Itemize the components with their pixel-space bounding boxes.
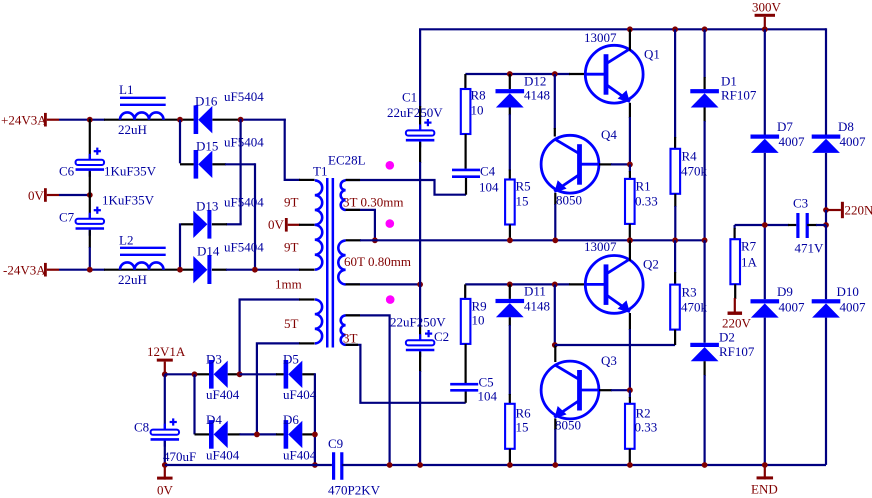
wire R2 top pin <box>629 390 631 398</box>
svg-text:T1: T1 <box>313 164 327 179</box>
wire C8 top lead <box>164 374 166 429</box>
resistor R8 10 <box>461 89 471 134</box>
wire Q3 base black <box>599 389 612 391</box>
svg-text:C8: C8 <box>134 420 149 435</box>
wire node to primary top <box>285 119 300 180</box>
wire C4 bottom pin <box>465 178 467 195</box>
junction 3T-mid/bus <box>372 237 378 243</box>
junction Q3c/R3 row <box>552 342 558 348</box>
svg-text:5T: 5T <box>284 316 299 331</box>
resistor R1 0.33 <box>625 179 635 224</box>
junction Q3e/rail <box>552 462 558 468</box>
junction rail/D1 <box>702 26 708 32</box>
wire -24V rail black <box>104 269 194 271</box>
wire D13 right <box>226 223 242 225</box>
svg-text:C4: C4 <box>480 164 496 179</box>
wire D5 anode black <box>276 373 284 375</box>
svg-text:3T: 3T <box>343 331 358 346</box>
svg-text:L1: L1 <box>119 82 133 97</box>
wire C7 bottom lead <box>89 230 91 248</box>
svg-text:300V: 300V <box>752 0 782 15</box>
svg-text:D10: D10 <box>837 284 859 299</box>
wire C3 right black <box>807 224 817 226</box>
junction +24V/C6 <box>87 117 93 123</box>
svg-text:D4: D4 <box>206 412 222 427</box>
resistor R5 15 <box>505 180 515 225</box>
svg-text:13007: 13007 <box>584 239 617 254</box>
junction rail/300V <box>762 26 768 32</box>
svg-text:15: 15 <box>516 194 529 209</box>
junction R6/rail <box>507 462 513 468</box>
wire D12 to R5 <box>509 108 511 116</box>
svg-text:0.33: 0.33 <box>635 420 658 435</box>
svg-text:uF5404: uF5404 <box>224 195 264 210</box>
svg-text:4148: 4148 <box>524 299 550 314</box>
wire 60T top stub <box>346 239 361 241</box>
port 12V1A <box>157 359 173 362</box>
wire 300V column to D7 <box>764 29 766 134</box>
svg-text:104: 104 <box>479 180 499 195</box>
wire D4 left <box>195 433 210 435</box>
svg-text:uF404: uF404 <box>206 448 240 463</box>
port +24V3A <box>44 113 47 127</box>
junction -24V/C7 <box>87 267 93 273</box>
wire mid bus <box>360 239 705 241</box>
wire C8 bottom lead <box>164 441 166 465</box>
wire R7 top pin <box>733 225 735 229</box>
wire 3T-mid to bus <box>346 210 375 240</box>
plus C1 <box>424 121 431 123</box>
junction D2/rail <box>702 462 708 468</box>
polarity dot 1 <box>386 161 395 170</box>
transistor Q4 8050 <box>541 135 599 193</box>
port 0V left <box>44 188 47 202</box>
resistor R6 15 <box>505 404 515 449</box>
wire D7 to D9 <box>764 153 766 299</box>
svg-text:10: 10 <box>472 313 485 328</box>
junction C3 right <box>823 222 829 228</box>
capacitor C8 470uF <box>164 424 166 430</box>
wire R9 top pin <box>464 284 466 299</box>
svg-text:uF5404: uF5404 <box>224 135 264 150</box>
wire C2 top black <box>419 325 421 340</box>
wire D3 anode black <box>195 373 209 375</box>
port 0V bottom <box>157 477 173 480</box>
diode D4 uF404 <box>209 420 214 449</box>
wire 3T-top to C4 <box>346 180 466 195</box>
diode D5 uF404 <box>284 360 289 389</box>
svg-text:uF5404: uF5404 <box>224 89 264 104</box>
wire D13 branch down <box>179 223 181 269</box>
capacitor C7 1KuF35V <box>89 213 91 219</box>
diode D15 uF5404 <box>194 150 199 179</box>
svg-text:uF404: uF404 <box>283 387 317 402</box>
svg-text:9T: 9T <box>284 195 299 210</box>
svg-text:R2: R2 <box>636 406 651 421</box>
wire R2 bottom pin <box>629 449 631 465</box>
junction D3/5T <box>237 371 243 377</box>
junction base/D12 <box>507 71 513 77</box>
wire D15 cathode black <box>212 163 226 165</box>
wire C1 bottom lead <box>419 142 421 163</box>
svg-text:C6: C6 <box>59 164 75 179</box>
diode D2 RF107 <box>690 343 719 347</box>
wire center tap black <box>299 224 315 226</box>
resistor R2 0.33 <box>625 404 635 449</box>
wire 0V rail left <box>165 464 332 466</box>
wire D1 to bus <box>703 108 705 123</box>
capacitor C2 22uF250V <box>419 334 421 340</box>
diode D14 uF5404 <box>193 256 207 283</box>
svg-text:8050: 8050 <box>555 418 581 433</box>
wire ground rail <box>342 464 826 466</box>
svg-text:D5: D5 <box>283 352 299 367</box>
diode D13 uF5404 <box>193 211 207 238</box>
junction C2/rail <box>417 462 423 468</box>
wire 3T-top stub <box>346 179 360 181</box>
svg-text:4007: 4007 <box>840 300 867 315</box>
wire D3 to node <box>228 373 241 375</box>
svg-text:D12: D12 <box>524 74 546 89</box>
svg-text:22uH: 22uH <box>118 122 147 137</box>
wire bus to D2 <box>703 240 705 342</box>
port END <box>757 476 774 479</box>
column D5/D6 to 0V rail <box>314 373 316 465</box>
svg-text:Q2: Q2 <box>643 257 659 272</box>
svg-text:10: 10 <box>471 103 484 118</box>
resistor R9 10 <box>461 299 471 344</box>
svg-text:4007: 4007 <box>779 134 806 149</box>
wire 220N junction to C3 row <box>825 210 827 226</box>
column A node to D13 <box>240 119 242 225</box>
wire Q4 emitter down <box>554 193 556 205</box>
wire 300V top rail <box>419 28 826 30</box>
svg-text:1KuF35V: 1KuF35V <box>104 164 157 179</box>
port 300V <box>755 14 775 17</box>
svg-text:D15: D15 <box>196 139 218 154</box>
svg-text:R6: R6 <box>516 406 532 421</box>
wire D6 anode black <box>276 433 284 435</box>
svg-text:471V: 471V <box>795 241 825 256</box>
wire node to D6 <box>240 433 278 435</box>
wire C3 to column <box>816 224 826 226</box>
wire R5 bottom pin <box>509 225 511 241</box>
svg-text:D11: D11 <box>524 284 546 299</box>
svg-text:R5: R5 <box>516 179 531 194</box>
wire Q4 collector up <box>554 74 556 129</box>
junction D6/rail column <box>312 432 318 438</box>
wire R3 top pin <box>674 240 676 273</box>
diode D16 uF5404 <box>194 105 199 134</box>
svg-text:D3: D3 <box>206 352 222 367</box>
junction 3Tb/rail <box>387 462 393 468</box>
wire C3 to D10 <box>825 225 827 299</box>
wire D4 to 5T node <box>228 433 241 435</box>
svg-text:C5: C5 <box>479 375 494 390</box>
wire R8 top pin <box>464 74 466 89</box>
wire C6 bottom lead <box>89 171 91 195</box>
svg-text:60T 0.80mm: 60T 0.80mm <box>344 254 411 269</box>
svg-text:22uH: 22uH <box>118 272 147 287</box>
svg-text:RF107: RF107 <box>721 88 757 103</box>
junction R1/bus <box>627 237 633 243</box>
resistor R3 470k <box>670 285 680 330</box>
wire D1 top pin <box>703 29 705 78</box>
junction Q4 collector/base row <box>552 71 558 77</box>
svg-text:C2: C2 <box>434 329 449 344</box>
svg-text:D1: D1 <box>721 74 737 89</box>
wire Q3 emitter down <box>554 419 556 430</box>
svg-text:END: END <box>751 482 778 497</box>
junction Q4e/bus <box>552 237 558 243</box>
junction 60T/C1C2 <box>417 282 423 288</box>
svg-text:1A: 1A <box>741 255 758 270</box>
wire D8 to 220N junction <box>825 153 827 210</box>
wire R3 bottom pin <box>674 330 676 345</box>
wire D11 to R6 <box>509 317 511 326</box>
wire D12 top pin <box>509 74 511 89</box>
wire into primary bottom <box>299 269 315 271</box>
svg-text:D2: D2 <box>719 330 735 345</box>
wire 0V to C6/C7 <box>59 194 90 196</box>
junction C3 row/D9 column <box>762 222 768 228</box>
junction D5D6 column/rail <box>312 462 318 468</box>
junction Q1 collector/rail <box>627 26 633 32</box>
inductor L2 <box>120 262 164 269</box>
svg-text:Q4: Q4 <box>601 127 617 142</box>
wire D15 branch down <box>179 120 181 164</box>
polarity dot 2 <box>386 219 395 228</box>
wire Q2 base black <box>569 283 586 285</box>
wire -24V rail <box>59 269 105 271</box>
wire 3Tb-top stub <box>346 314 360 316</box>
wire R4 bottom pin <box>674 194 676 207</box>
junction Q1e/R1 <box>627 162 633 168</box>
junction D4/5T bottom <box>254 432 260 438</box>
wire node to D5 <box>240 373 277 375</box>
svg-text:uF404: uF404 <box>206 387 240 402</box>
junction D9/rail END <box>762 462 768 468</box>
diode D1 RF107 <box>690 89 719 93</box>
wire D9 to rail <box>764 318 766 465</box>
wire D11 top pin <box>509 284 511 299</box>
winding secondary 60T <box>338 241 345 285</box>
svg-text:4148: 4148 <box>524 88 550 103</box>
wire D13 anode black <box>181 223 193 225</box>
junction R2/rail <box>627 462 633 468</box>
wire junction to C2 <box>419 284 421 326</box>
wire 3T-mid stub <box>346 209 360 211</box>
wire 3Tb-bottom stub <box>346 344 358 346</box>
svg-text:22uF250V: 22uF250V <box>387 105 443 120</box>
svg-text:-24V3A: -24V3A <box>3 263 46 278</box>
wire C1 to 60T junction <box>419 162 421 284</box>
svg-text:470P2KV: 470P2KV <box>328 483 381 498</box>
svg-text:9T: 9T <box>284 240 299 255</box>
wire Q1 base black <box>569 73 586 75</box>
resistor R4 470k <box>671 149 681 194</box>
svg-text:L2: L2 <box>119 233 133 248</box>
svg-text:0V: 0V <box>157 483 174 498</box>
wire R1 top pin <box>629 164 631 172</box>
diode D10 4007 <box>812 299 841 303</box>
wire Q3c row to R3 <box>555 344 675 346</box>
capacitor C1 22uF250V <box>419 124 421 130</box>
diode D3 uF404 <box>209 360 214 389</box>
wire C3 row left <box>735 224 789 226</box>
wire C7 to -24 rail <box>89 247 91 270</box>
wire 5T bottom black <box>299 342 315 344</box>
junction D16 output <box>238 117 244 123</box>
svg-text:R3: R3 <box>682 285 697 300</box>
svg-text:R7: R7 <box>741 239 757 254</box>
svg-text:C3: C3 <box>793 196 808 211</box>
inductor L1 <box>120 112 164 119</box>
wire R1 bottom pin <box>629 224 631 240</box>
wire Q3 collector up <box>554 284 556 345</box>
wire node to corner <box>240 119 286 121</box>
wire Q2 collector <box>629 240 631 260</box>
junction Q2 collector/bus <box>627 237 633 243</box>
svg-text:Q1: Q1 <box>644 47 660 62</box>
wire C5 bottom pin <box>465 391 467 403</box>
wire Q1 collector <box>629 29 631 50</box>
wire 3Tb-top to rail <box>346 315 390 465</box>
plus C2 <box>425 333 432 335</box>
wire Q1 base row <box>465 73 570 75</box>
winding secondary 3T bottom <box>341 315 346 344</box>
diode D9 4007 <box>751 299 780 303</box>
diode D12 4148 <box>496 89 525 93</box>
svg-text:0.33: 0.33 <box>635 194 658 209</box>
wire D15 to column B <box>225 163 255 165</box>
resistor R7 1A <box>730 239 740 284</box>
wire Q1 emitter <box>629 103 631 118</box>
svg-text:3T 0.30mm: 3T 0.30mm <box>343 195 403 210</box>
junction R4/bus <box>672 237 678 243</box>
svg-text:1mm: 1mm <box>275 277 302 292</box>
capacitor C4 104 <box>452 169 480 172</box>
transistor Q2 13007 <box>585 256 643 314</box>
junction Q3 collector/base row <box>552 282 558 288</box>
diode D8 4007 <box>812 135 841 139</box>
junction C8/0V rail <box>162 462 168 468</box>
plus C8 <box>170 421 177 423</box>
diode D7 4007 <box>751 135 780 139</box>
svg-text:C9: C9 <box>328 436 343 451</box>
svg-text:220N: 220N <box>845 203 872 218</box>
polarity dot 3 <box>386 295 395 304</box>
junction rail/R4 <box>672 26 678 32</box>
svg-text:R8: R8 <box>471 88 486 103</box>
junction D4 branch <box>192 371 198 377</box>
winding secondary 3T top <box>341 180 346 210</box>
svg-text:uF404: uF404 <box>283 448 317 463</box>
wire C1 top black <box>419 106 421 130</box>
svg-text:104: 104 <box>478 389 498 404</box>
wire R7 bottom pin <box>734 284 736 299</box>
svg-text:220V: 220V <box>722 316 752 331</box>
winding primary 9T top <box>315 180 322 224</box>
junction 12V/C8 <box>162 371 168 377</box>
wire D8 column <box>825 28 827 134</box>
svg-text:4007: 4007 <box>840 134 867 149</box>
wire R6 bottom pin <box>509 449 511 465</box>
wire R4 top pin <box>674 29 676 138</box>
wire C2 bottom lead <box>419 352 421 372</box>
svg-text:D8: D8 <box>838 119 854 134</box>
wire R8 to C4 <box>465 134 467 169</box>
wire 5T top to D3 row <box>240 300 300 375</box>
wire C1 column top <box>419 29 421 107</box>
port 0V center tap <box>285 218 288 232</box>
svg-text:Q3: Q3 <box>601 353 617 368</box>
svg-text:D13: D13 <box>196 199 218 214</box>
junction 220N <box>823 207 829 213</box>
capacitor C5 104 <box>450 383 478 386</box>
diode D11 4148 <box>496 299 525 303</box>
svg-text:RF107: RF107 <box>719 344 755 359</box>
wire 3Tb-bottom to C5 <box>346 345 466 403</box>
wire D2 to rail <box>703 361 705 376</box>
wire Q4 collector black <box>554 128 556 137</box>
wire 12V to D3 <box>165 373 196 375</box>
wire Q4 base black <box>599 163 612 165</box>
wire D10 column down <box>825 318 827 465</box>
svg-text:D14: D14 <box>197 244 220 259</box>
svg-text:8050: 8050 <box>556 193 582 208</box>
wire +24V rail <box>59 119 105 121</box>
wire Q4 base to R1 node <box>611 163 630 165</box>
wire 5T bottom to D4 row <box>257 343 300 434</box>
wire D16 to node <box>212 119 240 121</box>
svg-text:D9: D9 <box>777 284 793 299</box>
port 220V <box>728 312 743 315</box>
capacitor C3 471V <box>796 213 799 238</box>
svg-text:C1: C1 <box>402 90 417 105</box>
wire Q2 base row <box>465 283 570 285</box>
wire primary top black <box>299 179 315 181</box>
junction base/D11 <box>507 282 513 288</box>
svg-text:22uF250V: 22uF250V <box>390 315 446 330</box>
wire 60T bottom <box>346 283 421 285</box>
svg-text:13007: 13007 <box>584 30 617 45</box>
svg-text:EC28L: EC28L <box>328 153 366 168</box>
svg-text:R4: R4 <box>682 149 698 164</box>
port 220N <box>841 202 844 218</box>
svg-text:D6: D6 <box>283 412 299 427</box>
diode D6 uF404 <box>284 420 289 449</box>
wire C2 to ground rail <box>419 371 421 465</box>
winding primary 9T bottom <box>315 225 322 270</box>
junction 0V C6/C7 <box>87 192 93 198</box>
svg-text:1KuF35V: 1KuF35V <box>102 193 155 208</box>
wire R9 to C5 <box>465 344 467 383</box>
junction primary bottom <box>252 267 258 273</box>
svg-text:D16: D16 <box>195 94 218 109</box>
svg-text:uF5404: uF5404 <box>224 240 264 255</box>
junction Q2e/R2 <box>627 387 633 393</box>
junction D13/D14 branch <box>177 267 183 273</box>
svg-text:470uF: 470uF <box>163 449 196 464</box>
svg-text:C7: C7 <box>59 210 75 225</box>
column B D15 to primary bottom <box>254 163 256 269</box>
svg-text:D7: D7 <box>777 119 793 134</box>
junction D15 branch <box>177 117 183 123</box>
wire Q3 collector black <box>554 345 556 362</box>
svg-text:12V1A: 12V1A <box>147 344 186 359</box>
wire D14 cathode black <box>212 269 227 271</box>
